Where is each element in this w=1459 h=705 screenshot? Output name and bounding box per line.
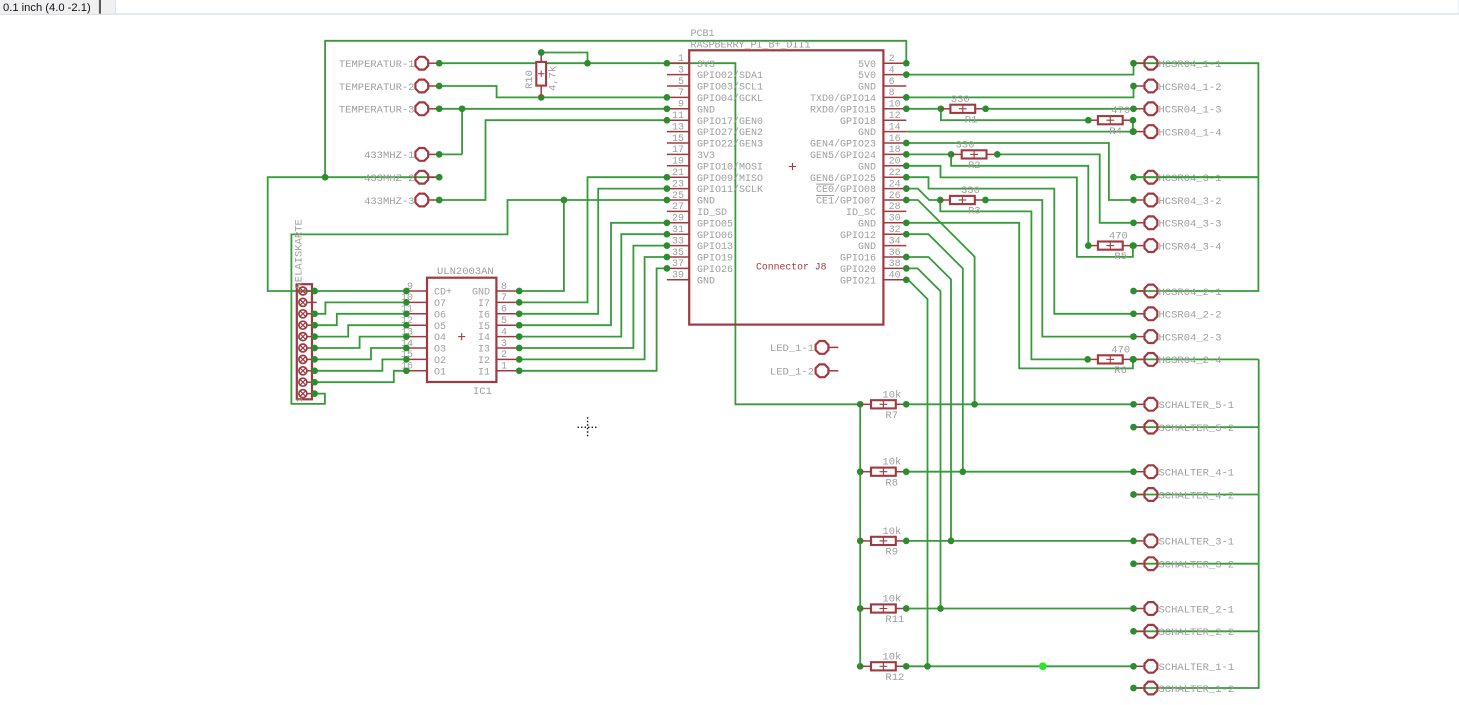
svg-text:GPIO20: GPIO20 (840, 265, 876, 276)
wire net 3V3 (TEMPERATUR-1, R10 pullup, RPi pin1, pull-up rail R7-R12) (439, 53, 860, 667)
connector SCHALTER_2-1 (1130, 602, 1234, 616)
wire net ULN O2 to relay card (315, 359, 407, 370)
svg-text:24: 24 (889, 179, 901, 190)
connector LED_1-2 (770, 364, 838, 378)
svg-text:470: 470 (1109, 231, 1128, 243)
svg-text:GND: GND (858, 162, 876, 173)
PCB1 pin labels right (810, 60, 876, 288)
svg-text:HCSR04_2-2: HCSR04_2-2 (1159, 310, 1222, 322)
svg-text:R10: R10 (524, 70, 536, 89)
svg-text:Connector J8: Connector J8 (756, 262, 827, 273)
svg-text:4,7k: 4,7k (548, 66, 560, 91)
svg-text:4: 4 (501, 327, 507, 338)
svg-text:18: 18 (889, 145, 901, 156)
svg-text:3: 3 (501, 339, 507, 350)
junction net SCHALTER_1 (924, 663, 931, 670)
wire net GND3 (RPi pin20 to HCSR04_3-4) (906, 166, 1133, 257)
svg-text:R9: R9 (885, 547, 898, 559)
connector HCSR04_3-1 (1130, 171, 1221, 185)
svg-text:SCHALTER_2-1: SCHALTER_2-1 (1159, 604, 1235, 616)
wire net I2 GPIO19 (RPi pin to ULN input) (519, 257, 667, 359)
PCB1 pin numbers right (889, 54, 901, 282)
svg-text:PCB1: PCB1 (691, 29, 715, 40)
connector SCHALTER_4-2 (1130, 488, 1234, 502)
wire net ULN O5 to relay card (315, 325, 407, 336)
wire net I3 GPIO13 (RPi pin to ULN input) (519, 246, 667, 348)
wire net SCHALTER_1/GPIO21 (RPi pin40, R12) (906, 280, 1133, 667)
svg-text:GND: GND (697, 105, 715, 116)
svg-text:SCHALTER_1-2: SCHALTER_1-2 (1159, 684, 1235, 696)
IC1 pin stubs right (8-1) (496, 291, 516, 371)
wire net I1 GPIO26 (RPi pin to ULN input) (519, 268, 667, 370)
svg-text:38: 38 (889, 259, 901, 270)
svg-text:GPIO03/SCL1: GPIO03/SCL1 (697, 82, 763, 94)
svg-text:O2: O2 (434, 356, 446, 367)
connector TEMPERATUR-2 (339, 80, 443, 94)
IC PCB1 RASPBERRY_PI_B+ connector J8 (689, 50, 883, 324)
svg-text:34: 34 (889, 236, 901, 247)
highlighted junction on SCHALTER_1 wire (1039, 662, 1047, 670)
svg-text:HCSR04_3-2: HCSR04_3-2 (1159, 196, 1222, 208)
svg-text:I4: I4 (478, 333, 490, 344)
svg-text:5: 5 (501, 316, 507, 327)
junction net ECHO1 (938, 105, 945, 112)
svg-text:TEMPERATUR-1: TEMPERATUR-1 (339, 59, 415, 71)
svg-text:7: 7 (501, 293, 507, 304)
svg-text:GPIO18: GPIO18 (840, 117, 876, 128)
svg-text:22: 22 (889, 168, 901, 179)
svg-text:5V0: 5V0 (858, 71, 876, 82)
svg-text:19: 19 (672, 157, 684, 168)
svg-text:31: 31 (672, 225, 684, 236)
svg-text:I2: I2 (478, 356, 490, 367)
svg-text:1: 1 (678, 54, 684, 65)
svg-text:4: 4 (889, 65, 895, 76)
PCB1 pin connection dots right (903, 60, 910, 283)
connector HCSR04_1-1 (1130, 57, 1221, 71)
wire net ECHO2 (RPi pin24, R3, R6 divider) (906, 189, 1133, 360)
svg-text:3V3: 3V3 (697, 60, 715, 71)
svg-text:ULN2003AN: ULN2003AN (437, 266, 494, 278)
svg-text:GPIO04/GCKL: GPIO04/GCKL (697, 93, 763, 105)
svg-text:HCSR04_3-4: HCSR04_3-4 (1159, 241, 1222, 253)
svg-text:35: 35 (672, 248, 684, 259)
IC1 pin connection dots (403, 288, 523, 375)
junction net SCHALTER_3 (948, 538, 955, 545)
junction net 5V (322, 174, 329, 181)
svg-text:HCSR04_3-3: HCSR04_3-3 (1159, 219, 1222, 231)
svg-text:GPIO10/MOSI: GPIO10/MOSI (697, 161, 763, 173)
connector HCSR04_2-4 (1130, 353, 1221, 367)
svg-text:16: 16 (889, 134, 901, 145)
svg-text:40: 40 (889, 271, 901, 282)
wire net ULN O4 to relay card (315, 337, 407, 348)
svg-text:21: 21 (672, 168, 684, 179)
connector TEMPERATUR-3 (339, 102, 443, 116)
svg-text:0.1 inch (4.0 -2.1): 0.1 inch (4.0 -2.1) (3, 2, 91, 14)
wire net ECHO3 (RPi pin18, R2, R5 divider) (906, 154, 1133, 245)
svg-text:6: 6 (501, 305, 507, 316)
wire net TRIG1 (RPi pin8 to HCSR04_1-2) (906, 86, 1133, 97)
svg-text:LED_1-2: LED_1-2 (770, 367, 814, 379)
svg-text:GPIO19: GPIO19 (697, 254, 733, 265)
svg-text:GND: GND (858, 219, 876, 230)
svg-text:3: 3 (678, 65, 684, 76)
svg-text:3V3: 3V3 (697, 151, 715, 162)
IC1 pin numbers right (501, 282, 507, 373)
connector HCSR04_2-3 (1130, 330, 1221, 344)
svg-text:32: 32 (889, 225, 901, 236)
svg-text:433MHZ-3: 433MHZ-3 (364, 196, 414, 208)
svg-text:GPIO26: GPIO26 (697, 265, 733, 276)
svg-text:O7: O7 (434, 299, 446, 310)
svg-text:GPIO17/GEN0: GPIO17/GEN0 (697, 116, 763, 128)
connector SCHALTER_2-2 (1130, 625, 1234, 639)
wire HCSR04_3-1 to 5V bus (1134, 176, 1259, 178)
svg-text:10k: 10k (882, 389, 901, 401)
resistor R7 10k (861, 389, 909, 422)
wire net TRIG2 (RPi pin22 to HCSR04_2-2) (906, 177, 1133, 314)
svg-text:HCSR04_2-4: HCSR04_2-4 (1159, 355, 1222, 367)
svg-text:GEN6/GPIO25: GEN6/GPIO25 (810, 173, 876, 185)
svg-text:R5: R5 (1114, 251, 1127, 263)
svg-text:330: 330 (961, 185, 980, 197)
connector 433MHZ-3 (364, 194, 442, 208)
toolbar status bar (0, 0, 1459, 14)
svg-text:25: 25 (672, 191, 684, 202)
IC1 origin cross (458, 333, 465, 340)
svg-text:7: 7 (678, 88, 684, 99)
svg-text:9: 9 (678, 100, 684, 111)
svg-text:330: 330 (956, 139, 975, 151)
connector SCHALTER_1-2 (1130, 682, 1234, 696)
resistor R9 10k (861, 526, 909, 559)
svg-text:O3: O3 (434, 345, 446, 356)
RELAISKARTE pin 1 mark (295, 398, 305, 403)
svg-text:10k: 10k (882, 526, 901, 538)
connector SCHALTER_5-2 (1130, 421, 1234, 435)
connector HCSR04_1-3 (1130, 102, 1221, 116)
svg-text:5V0: 5V0 (858, 60, 876, 71)
svg-text:39: 39 (672, 271, 684, 282)
svg-text:GPIO21: GPIO21 (840, 276, 876, 287)
svg-text:12: 12 (889, 111, 901, 122)
connector 433MHZ-1 (364, 148, 442, 162)
svg-text:GPIO13: GPIO13 (697, 242, 733, 253)
svg-text:20: 20 (889, 157, 901, 168)
svg-text:26: 26 (889, 191, 901, 202)
connector HCSR04_1-4 (1130, 125, 1221, 139)
RELAISKARTE pin connection dots (311, 288, 318, 397)
junction net SCHALTER_5 (971, 401, 978, 408)
svg-text:330: 330 (951, 94, 970, 106)
svg-text:LED_1-1: LED_1-1 (770, 343, 814, 355)
svg-text:5: 5 (678, 77, 684, 88)
resistor R1 330 (941, 94, 989, 127)
svg-text:HCSR04_1-2: HCSR04_1-2 (1159, 82, 1222, 94)
svg-text:23: 23 (672, 179, 684, 190)
svg-text:GPIO02/SDA1: GPIO02/SDA1 (697, 70, 763, 82)
connector HCSR04_2-2 (1130, 307, 1221, 321)
wire net 5V-HCSR04 (RPi pin4 to HCSR04 Vcc bus) (906, 63, 1258, 291)
wire net SCHALTER_2/GPIO20 (RPi pin38, R11) (906, 268, 1133, 608)
PCB1 pin stubs right (pins 2-40) (883, 63, 906, 280)
wire net ULN O6 to relay card (315, 314, 407, 325)
svg-text:O4: O4 (434, 333, 446, 344)
svg-text:GND: GND (697, 276, 715, 287)
junction net ECHO3 (948, 151, 955, 158)
svg-text:1: 1 (501, 362, 507, 373)
wire net 5V (433MHZ-2, relay card, ULN CD+, RPi pin2) (268, 41, 907, 291)
svg-text:10: 10 (889, 100, 901, 111)
PCB1 pin connection dots left (664, 60, 671, 272)
svg-text:GND: GND (858, 128, 876, 139)
RELAISKARTE label (294, 219, 306, 288)
resistor R2 330 (952, 139, 1001, 172)
svg-text:R6: R6 (1114, 365, 1127, 377)
PCB1 pin stubs left (pins 1-39) (667, 63, 689, 280)
junction net GND-A (459, 105, 466, 112)
svg-text:TEMPERATUR-2: TEMPERATUR-2 (339, 82, 415, 94)
PCB1 label Connector J8 (756, 262, 827, 273)
IC IC1 ULN2003AN body (427, 278, 496, 382)
IC1 title ULN2003AN (437, 266, 494, 278)
connector SCHALTER_3-2 (1130, 557, 1234, 571)
svg-text:28: 28 (889, 202, 901, 213)
svg-text:8: 8 (501, 282, 507, 293)
svg-text:O6: O6 (434, 310, 446, 321)
svg-text:11: 11 (672, 111, 684, 122)
junction net 3V3 (584, 60, 863, 670)
connector HCSR04_1-2 (1130, 80, 1221, 94)
wire net 433-3/GPIO17 (433MHZ-3 to RPi pin11) (439, 120, 667, 200)
svg-text:HCSR04_2-1: HCSR04_2-1 (1159, 287, 1222, 299)
junction net SCHALTER_2 (937, 605, 944, 612)
wire net GND2 (RPi pin30 to HCSR04_2-4 and switch bus) (906, 223, 1258, 688)
resistor R8 10k (861, 457, 909, 490)
svg-text:SCHALTER_5-2: SCHALTER_5-2 (1159, 423, 1235, 435)
svg-text:GEN5/GPIO24: GEN5/GPIO24 (810, 150, 876, 162)
resistor R4 470 (1085, 105, 1136, 138)
wire net TRIG3 (RPi pin16 to HCSR04_3-2) (906, 143, 1133, 200)
svg-text:GPIO06: GPIO06 (697, 231, 733, 242)
PCB1 title labels (691, 29, 811, 52)
svg-text:I1: I1 (478, 367, 490, 378)
svg-text:SCHALTER_4-2: SCHALTER_4-2 (1159, 490, 1235, 502)
svg-text:27: 27 (672, 202, 684, 213)
svg-text:30: 30 (889, 214, 901, 225)
svg-text:GPIO22/GEN3: GPIO22/GEN3 (697, 139, 763, 151)
mouse crosshair cursor (578, 417, 599, 438)
svg-text:R7: R7 (885, 410, 898, 422)
svg-text:SCHALTER_4-1: SCHALTER_4-1 (1159, 468, 1235, 480)
svg-text:R3: R3 (968, 206, 981, 218)
svg-text:HCSR04_2-3: HCSR04_2-3 (1159, 332, 1222, 344)
IC1 name label (473, 386, 492, 398)
IC1 pin numbers left (401, 282, 413, 373)
svg-text:R4: R4 (1109, 126, 1122, 138)
RELAISKARTE pins (circle pads) (299, 287, 317, 398)
svg-text:R12: R12 (885, 672, 904, 684)
wire net I5 GPIO05 (RPi pin to ULN input) (519, 223, 667, 325)
connector HCSR04_3-2 (1130, 194, 1221, 208)
svg-text:10k: 10k (882, 594, 901, 606)
svg-text:37: 37 (672, 259, 684, 270)
svg-text:10k: 10k (882, 651, 901, 663)
svg-text:433MHZ-1: 433MHZ-1 (364, 150, 414, 162)
resistor R3 330 (940, 185, 989, 218)
svg-text:I5: I5 (478, 322, 490, 333)
svg-text:470: 470 (1111, 344, 1130, 356)
connector TEMPERATUR-1 (339, 57, 443, 71)
wire net GND1 (RPi pin14 to HCSR04_1-4) (906, 131, 1133, 133)
svg-text:O5: O5 (434, 322, 446, 333)
connector HCSR04_3-3 (1130, 216, 1221, 230)
svg-text:HCSR04_1-3: HCSR04_1-3 (1159, 105, 1222, 117)
svg-text:IC1: IC1 (473, 386, 492, 398)
svg-text:RASPBERRY_PI_B+_DII1: RASPBERRY_PI_B+_DII1 (691, 41, 811, 52)
svg-text:1: 1 (295, 398, 305, 403)
PCB1 origin cross (789, 163, 796, 170)
connector SCHALTER_3-1 (1130, 535, 1234, 549)
connector HCSR04_3-4 (1130, 239, 1221, 253)
svg-text:GPIO09/MISO: GPIO09/MISO (697, 173, 763, 185)
resistor R12 10k (861, 651, 909, 684)
svg-text:33: 33 (672, 236, 684, 247)
svg-text:8: 8 (889, 88, 895, 99)
svg-text:R8: R8 (885, 477, 898, 489)
svg-text:470: 470 (1111, 105, 1130, 117)
resistor R6 470 (1084, 344, 1136, 377)
svg-text:14: 14 (889, 122, 901, 133)
svg-text:2: 2 (889, 54, 895, 65)
svg-text:ID_SC: ID_SC (846, 208, 876, 219)
wire net ULN O3 to relay card (315, 348, 407, 359)
svg-text:HCSR04_3-1: HCSR04_3-1 (1159, 173, 1222, 185)
svg-text:13: 13 (672, 122, 684, 133)
svg-text:29: 29 (672, 214, 684, 225)
svg-text:HCSR04_1-4: HCSR04_1-4 (1159, 127, 1222, 139)
svg-text:RXD0/GPIO15: RXD0/GPIO15 (810, 104, 876, 116)
svg-text:GPIO12: GPIO12 (840, 231, 876, 242)
wire net GND-A (TEMPERATUR-3, 433MHZ-1, RPi pin9) (439, 109, 667, 155)
svg-text:SCHALTER_1-1: SCHALTER_1-1 (1159, 662, 1235, 674)
junction net TEMP2 (538, 94, 545, 101)
junction net GND-B (561, 197, 568, 204)
IC1 pin labels (434, 288, 490, 379)
wire net SCHALTER_5/GPIO7 (RPi pin26, R7) (906, 200, 1133, 404)
junction net ECHO2 (937, 197, 944, 204)
svg-text:SCHALTER_3-1: SCHALTER_3-1 (1159, 537, 1235, 549)
svg-text:2: 2 (501, 350, 507, 361)
PCB1 pin labels left (697, 60, 763, 288)
wire net I4 GPIO06 (RPi pin to ULN input) (519, 234, 667, 336)
svg-text:TEMPERATUR-3: TEMPERATUR-3 (339, 105, 415, 117)
wire net ECHO1 (RPi pin10, R1, R4 divider) (906, 109, 1133, 132)
resistor R10 4,7k (vertical) (524, 49, 560, 97)
svg-text:10k: 10k (882, 457, 901, 469)
svg-text:CD+: CD+ (434, 288, 452, 299)
connector SCHALTER_5-1 (1130, 398, 1234, 412)
svg-text:GND: GND (858, 83, 876, 94)
svg-text:CE1/GPIO07: CE1/GPIO07 (816, 196, 876, 208)
svg-text:HCSR04_1-1: HCSR04_1-1 (1159, 59, 1222, 71)
wire net TEMP2/GPIO4 (TEMPERATUR-2 to RPi pin7 with R10) (439, 86, 667, 97)
connector LED_1-1 (770, 341, 838, 355)
svg-text:433MHZ-2: 433MHZ-2 (364, 173, 414, 185)
svg-text:ID_SD: ID_SD (697, 208, 727, 219)
connector SCHALTER_4-1 (1130, 465, 1234, 479)
svg-text:GND: GND (472, 288, 490, 299)
svg-text:GPIO05: GPIO05 (697, 219, 733, 230)
svg-text:36: 36 (889, 248, 901, 259)
svg-text:17: 17 (672, 145, 684, 156)
svg-text:GPIO27/GEN2: GPIO27/GEN2 (697, 127, 763, 139)
resistor R11 10k (861, 594, 909, 627)
svg-text:GEN4/GPIO23: GEN4/GPIO23 (810, 139, 876, 151)
svg-text:15: 15 (672, 134, 684, 145)
connector 433MHZ-2 (364, 171, 442, 185)
svg-text:GND: GND (697, 197, 715, 208)
connector SCHALTER_1-1 (1130, 660, 1234, 674)
connector HCSR04_2-1 (1130, 285, 1221, 299)
svg-text:I6: I6 (478, 310, 490, 321)
wire net I6 GPIO11 (RPi pin to ULN input) (519, 189, 667, 314)
svg-text:SCHALTER_5-1: SCHALTER_5-1 (1159, 400, 1235, 412)
connector RELAISKARTE body (297, 284, 312, 399)
svg-text:GND: GND (858, 242, 876, 253)
svg-text:I7: I7 (478, 299, 490, 310)
wire net SCHALTER_4/GPIO12 (RPi pin32, R8) (906, 234, 1133, 472)
svg-text:R2: R2 (968, 160, 981, 172)
svg-text:R1: R1 (965, 114, 978, 126)
svg-text:TXD0/GPIO14: TXD0/GPIO14 (810, 93, 876, 105)
IC1 pin stubs left (9-16) (407, 291, 427, 371)
svg-text:I3: I3 (478, 345, 490, 356)
svg-text:R11: R11 (885, 614, 904, 626)
wire net ULN O1 to relay card (315, 371, 407, 382)
svg-text:RELAISKARTE: RELAISKARTE (294, 219, 306, 288)
toolbar coordinate text (3, 2, 91, 14)
PCB1 pin numbers left (672, 54, 684, 282)
junction net SCHALTER_4 (959, 468, 966, 475)
svg-text:SCHALTER_2-2: SCHALTER_2-2 (1159, 627, 1235, 639)
svg-text:O1: O1 (434, 367, 446, 378)
svg-text:SCHALTER_3-2: SCHALTER_3-2 (1159, 560, 1235, 572)
wire net I7 GPIO09 (RPi pin to ULN input) (519, 177, 667, 302)
svg-text:CE0/GPIO08: CE0/GPIO08 (816, 184, 876, 196)
wire net GND-B (RPi pin25, ULN pin8 GND, relay pin10) (291, 200, 667, 404)
resistor R5 470 (1085, 231, 1136, 264)
wire net SCHALTER_3/GPIO16 (RPi pin36, R9) (906, 257, 1133, 541)
svg-text:GPIO16: GPIO16 (840, 254, 876, 265)
svg-text:6: 6 (889, 77, 895, 88)
wire net ULN O7 to relay card (315, 302, 407, 313)
svg-text:GPIO11/SCLK: GPIO11/SCLK (697, 184, 763, 196)
